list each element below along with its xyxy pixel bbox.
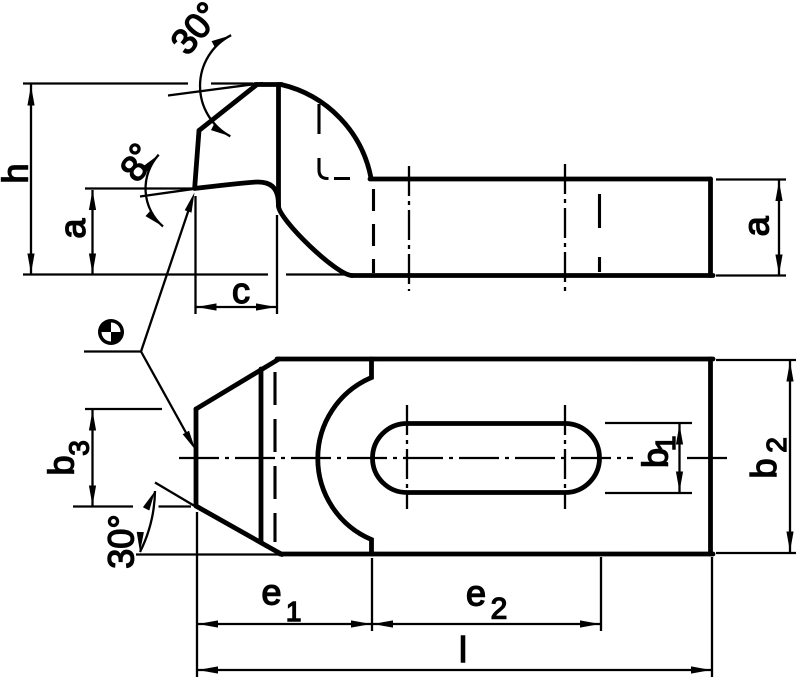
wire: b2 bottom extension line	[716, 552, 796, 554]
wire: e1 e2 middle extension line	[371, 558, 373, 631]
svg-text:c: c	[232, 270, 250, 311]
wire: right a bottom extension line	[716, 274, 786, 276]
wire: side view neck lower curve	[279, 206, 353, 276]
svg-text:e: e	[261, 572, 281, 613]
wire: 30-deg angle arc with arrows	[200, 35, 231, 136]
wire: right a top extension line	[716, 178, 786, 180]
wire: side view gooseneck boss arc	[281, 85, 371, 179]
svg-text:3: 3	[64, 440, 95, 456]
wire: h top extension line	[23, 82, 253, 84]
svg-text:b: b	[743, 458, 784, 478]
wire: plan top chamfer	[196, 359, 279, 409]
wire: dimension a right line with arrows	[778, 180, 780, 275]
node: centerline of slot left cap (side view)	[408, 166, 410, 291]
wire: plan inner vertical edge	[259, 369, 264, 543]
wire: c right extension line	[276, 215, 278, 314]
wire: b1 top extension line	[605, 422, 692, 424]
svg-text:l: l	[459, 629, 467, 670]
wire: h bottom extension line	[23, 273, 352, 275]
wire: side view nose bottom face with corner radius	[195, 182, 279, 206]
svg-text:h: h	[0, 163, 36, 183]
svg-text:2: 2	[761, 437, 792, 453]
wire: 8-deg reference line through tip	[140, 188, 199, 196]
node: plan horizontal centerline	[179, 457, 633, 459]
wire: c left extension line	[194, 196, 196, 314]
svg-text:a: a	[736, 215, 777, 236]
wire: leader to plan left face with arrow	[141, 352, 192, 444]
wire: b1 bottom extension line	[605, 492, 692, 494]
svg-text:30°: 30°	[101, 514, 142, 568]
svg-text:e: e	[466, 573, 486, 614]
wire: plan left face	[194, 409, 199, 506]
svg-text:a: a	[52, 218, 93, 239]
wire: plan bottom chamfer	[196, 506, 282, 555]
wire: hidden bore edge with corner (dashed)	[319, 104, 350, 179]
wire: side view nose left edge	[195, 131, 199, 188]
wire: dimension c line with arrows	[196, 306, 277, 308]
wire: plan right face	[708, 359, 713, 554]
wire: side view 30-deg nose slope	[199, 85, 257, 131]
wire: l right extension line	[711, 557, 713, 677]
node: plan vertical centerline left cap	[406, 405, 408, 509]
wire: e2 right extension line	[600, 557, 602, 631]
wire: e1 l left extension line	[196, 512, 198, 677]
node: centerline of slot right cap (side view)	[564, 164, 566, 293]
wire: side view bar bottom edge	[352, 273, 713, 278]
wire: plan hidden edge x=275 (dashed)	[273, 372, 276, 542]
wire: side view top face	[255, 82, 282, 87]
svg-text:1: 1	[286, 596, 302, 627]
wire: b2 top extension line	[716, 359, 796, 361]
wire: dimension b1 line with arrows	[678, 424, 680, 492]
wire: side view bar top edge	[370, 177, 711, 182]
wire: b3 bottom extension line	[73, 505, 191, 507]
svg-text:b: b	[41, 455, 82, 475]
wire: symbol shelf line	[84, 350, 141, 352]
wire: hidden slot right end x=600 (dashed)	[598, 194, 601, 272]
wire: dimension e1 line with arrows	[198, 623, 372, 625]
node: machined-surface symbol (quadrant circle)	[98, 319, 124, 345]
wire: dimension h line with arrows	[30, 85, 32, 275]
wire: dimension a line with arrows	[91, 190, 93, 274]
wire: leader to nose tip with arrow	[141, 199, 193, 352]
node: plan vertical centerline right cap	[564, 405, 566, 509]
wire: 30-deg chamfer extension line	[155, 483, 198, 509]
wire: 30-deg bottom angle arc with arrows	[140, 491, 155, 552]
svg-text:2: 2	[491, 593, 508, 626]
wire: 30-deg bottom extension line	[136, 553, 282, 555]
wire: dimension b3 line with arrows	[91, 410, 93, 506]
wire: dimension l line with arrows	[198, 669, 712, 671]
wire: side view bar right end face	[708, 179, 713, 276]
wire: dimension e2 line with arrows	[373, 623, 601, 625]
wire: b3 top extension line	[85, 408, 162, 410]
wire: side view nose right face	[276, 85, 281, 207]
wire: a top extension line	[85, 187, 193, 189]
wire: plan slot obround	[373, 424, 600, 493]
wire: plan top edge	[277, 357, 713, 362]
wire: 30-deg reference line through apex	[168, 83, 263, 96]
wire: plan bottom edge	[280, 552, 713, 557]
svg-text:1: 1	[650, 436, 681, 452]
wire: hidden recess edge x=373 (dashed)	[372, 189, 375, 273]
wire: 8-deg angle arc with arrows	[146, 155, 163, 227]
wire: plan recess arc with jogs	[318, 359, 372, 554]
wire: dimension b2 line with arrows	[789, 361, 791, 552]
